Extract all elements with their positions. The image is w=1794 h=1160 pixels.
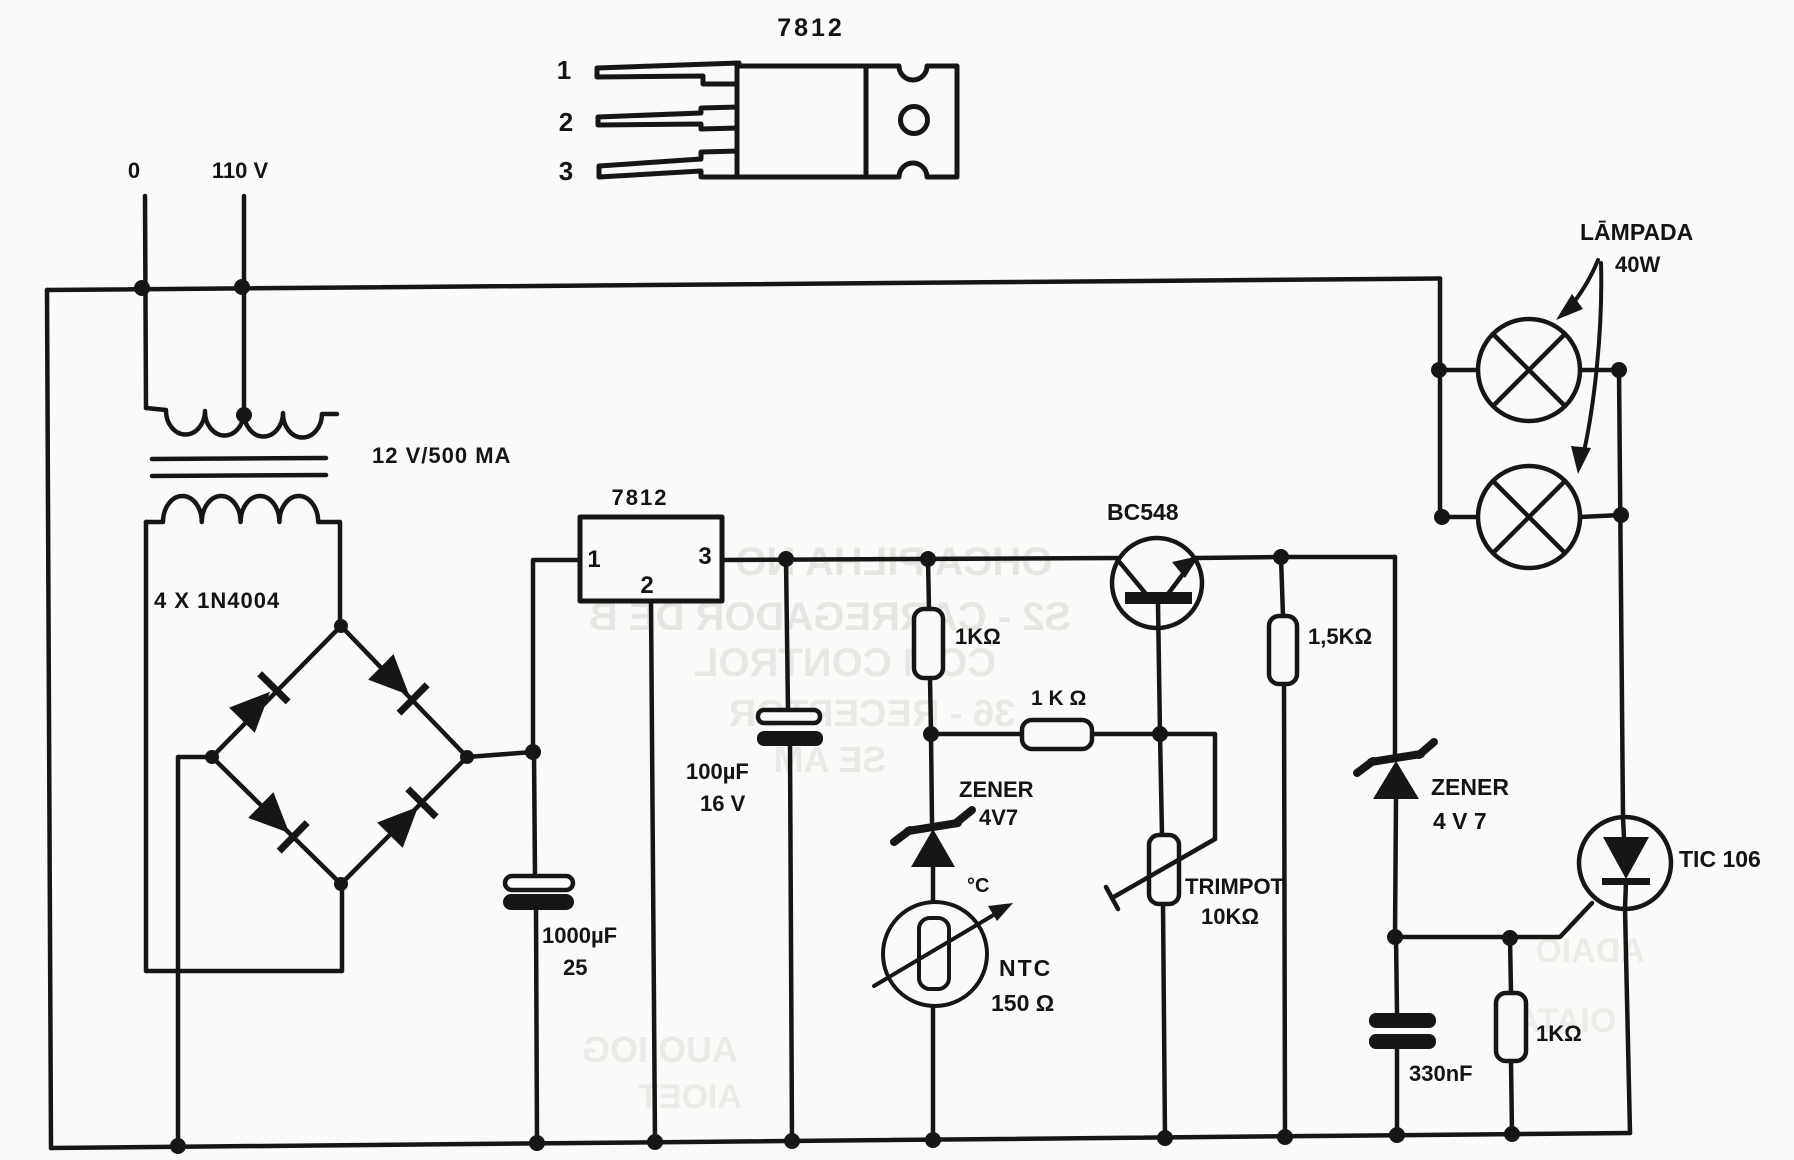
svg-text:AUO IOG: AUO IOG (582, 1029, 738, 1070)
svg-text:3: 3 (698, 543, 711, 570)
svg-text:1KΩ: 1KΩ (1536, 1021, 1582, 1046)
svg-text:ZENER: ZENER (1431, 774, 1509, 800)
svg-text:40W: 40W (1615, 252, 1660, 277)
svg-text:BC548: BC548 (1107, 499, 1179, 525)
svg-text:TRIMPOT: TRIMPOT (1185, 874, 1285, 899)
svg-text:2: 2 (640, 572, 653, 599)
svg-text:1000µF: 1000µF (542, 923, 617, 948)
svg-text:2: 2 (559, 107, 573, 137)
svg-text:4 V 7: 4 V 7 (1433, 808, 1487, 834)
svg-text:ZENER: ZENER (959, 777, 1034, 802)
svg-text:0: 0 (128, 158, 140, 183)
svg-text:7812: 7812 (777, 14, 845, 42)
svg-text:°C: °C (967, 875, 989, 897)
svg-text:3: 3 (559, 156, 573, 186)
svg-text:1 K Ω: 1 K Ω (1031, 687, 1086, 710)
svg-text:7812: 7812 (612, 485, 669, 510)
svg-text:1,5KΩ: 1,5KΩ (1308, 624, 1372, 649)
svg-text:COM CONTROL: COM CONTROL (694, 641, 996, 685)
svg-text:110 V: 110 V (212, 158, 269, 183)
svg-text:4V7: 4V7 (979, 805, 1018, 830)
svg-text:330nF: 330nF (1409, 1061, 1473, 1086)
svg-text:16 V: 16 V (700, 791, 746, 816)
svg-text:25: 25 (563, 955, 587, 980)
svg-text:1KΩ: 1KΩ (955, 624, 1001, 649)
svg-text:10KΩ: 10KΩ (1201, 904, 1259, 929)
svg-text:1: 1 (587, 546, 600, 573)
svg-text:NTC: NTC (999, 955, 1052, 981)
svg-text:150 Ω: 150 Ω (991, 990, 1054, 1016)
svg-text:1: 1 (557, 55, 571, 85)
svg-text:4 X 1N4004: 4 X 1N4004 (154, 588, 280, 613)
svg-text:12 V/500 MA: 12 V/500 MA (372, 443, 511, 468)
svg-text:100µF: 100µF (686, 759, 749, 784)
svg-text:TIC 106: TIC 106 (1679, 846, 1761, 872)
svg-text:LĀMPADA: LĀMPADA (1580, 219, 1693, 245)
